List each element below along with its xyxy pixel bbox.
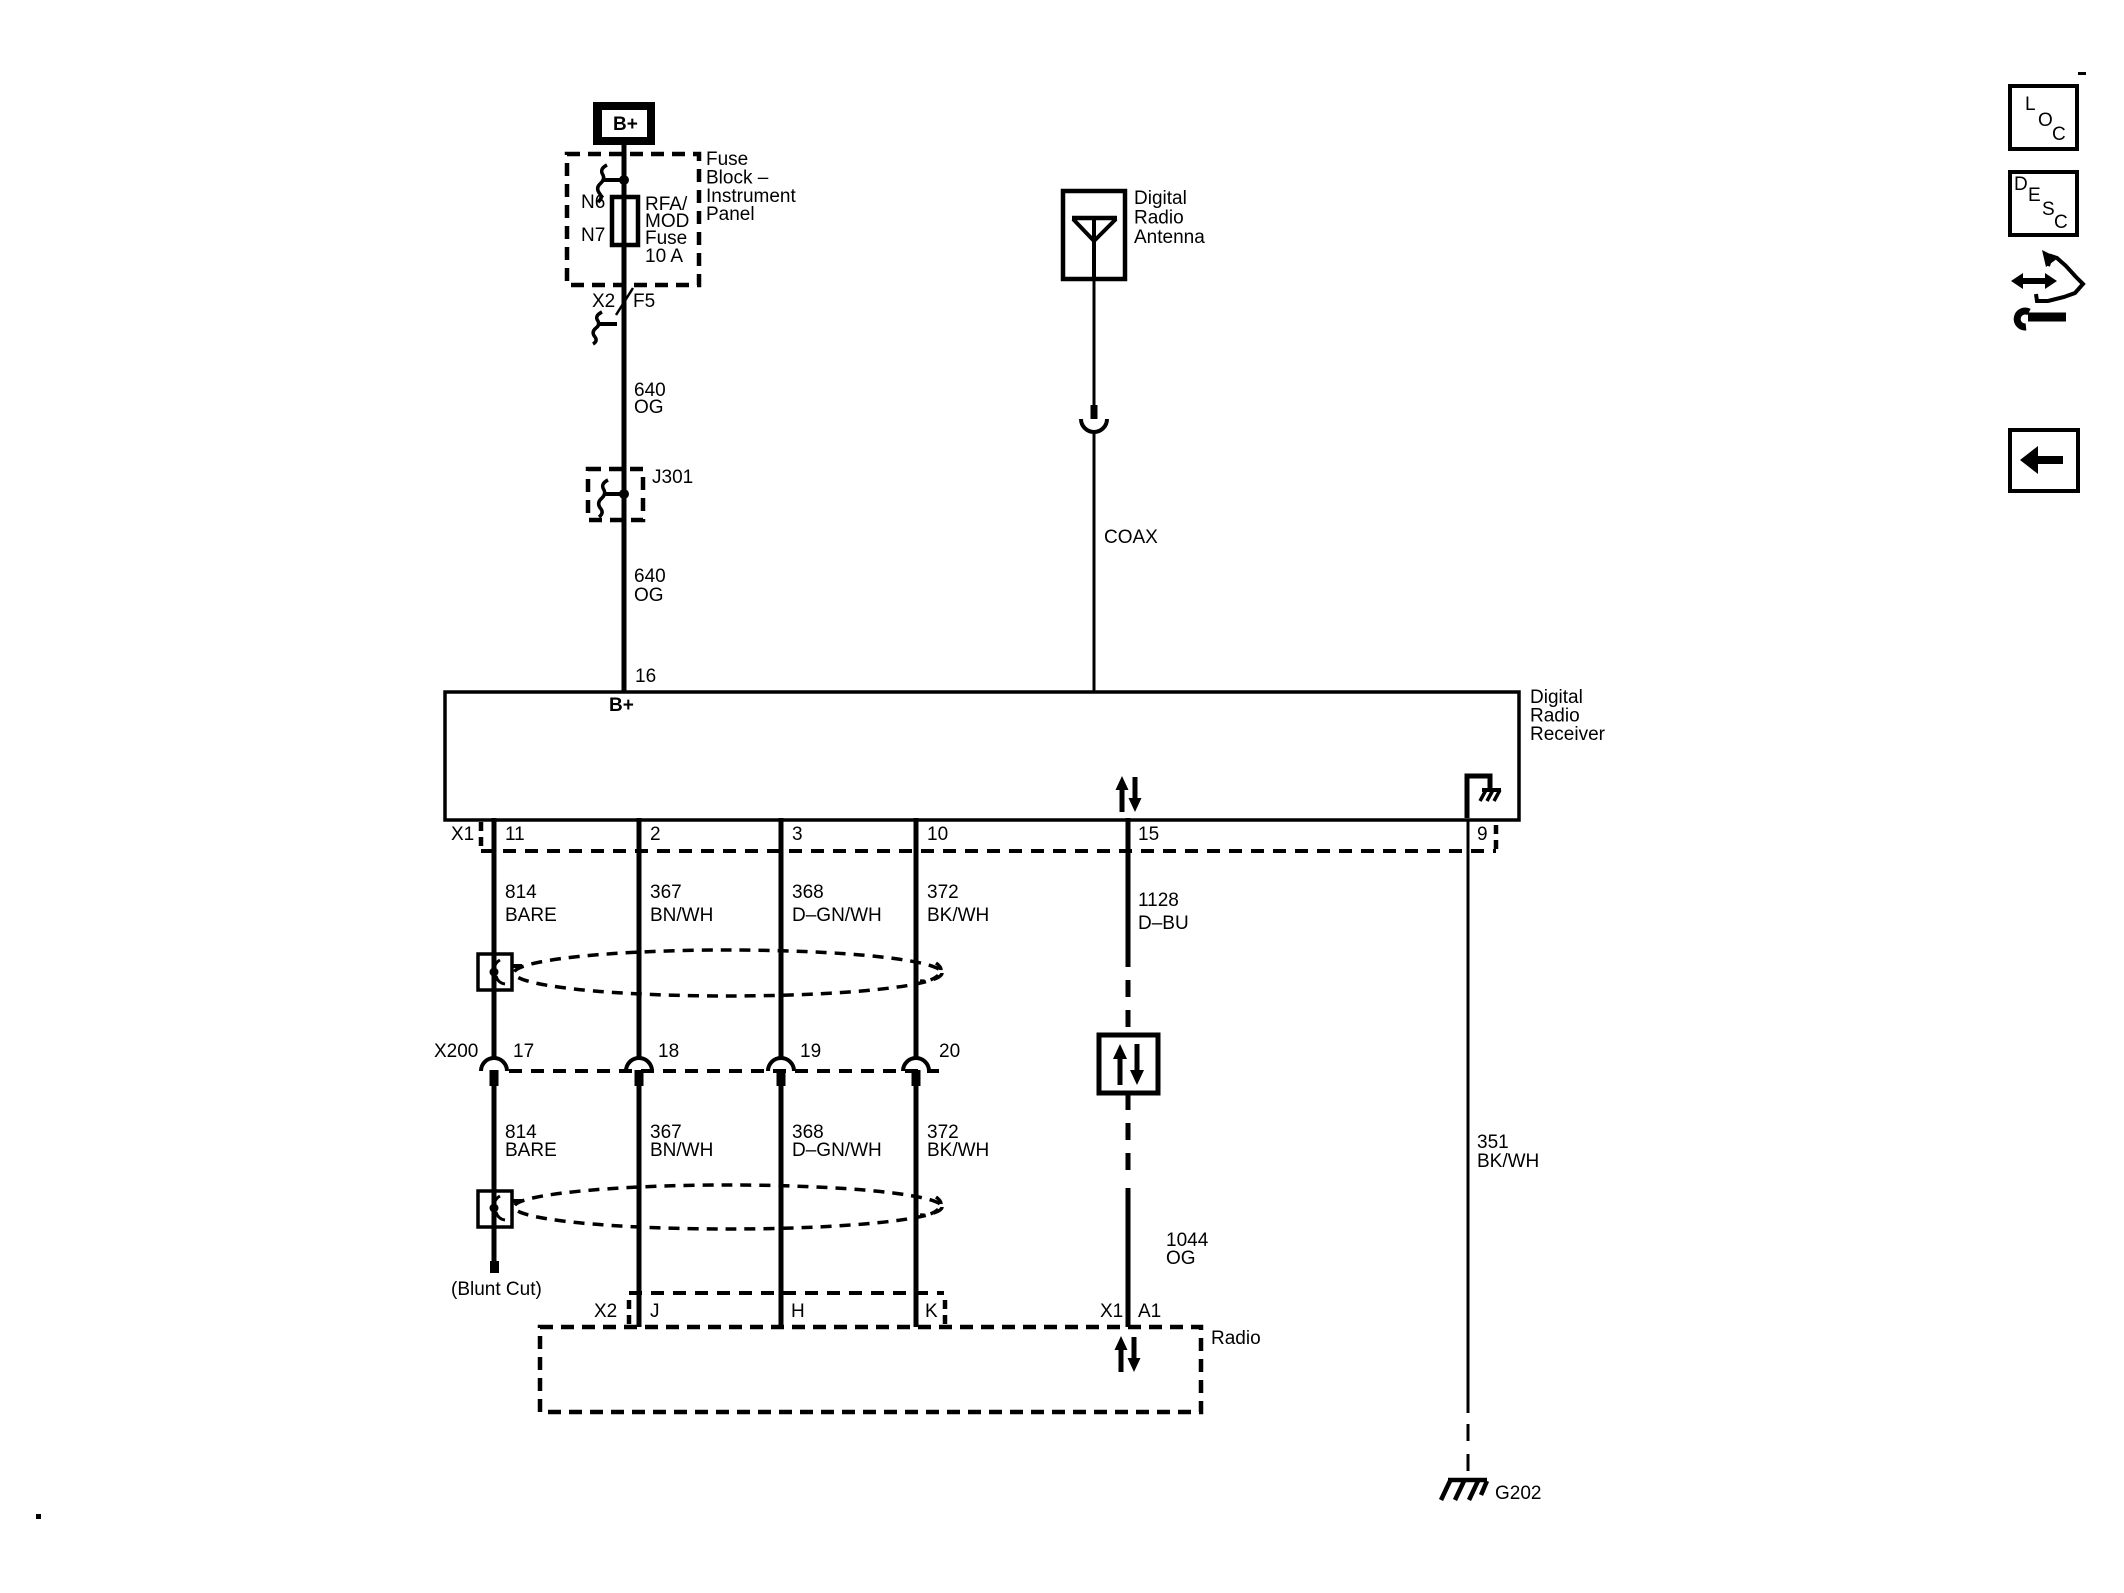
wire: 367 BN/WH (pin 2 to X200) xyxy=(637,818,642,1058)
svg-text:N6: N6 xyxy=(581,192,605,213)
wire: 1128 D-BU solid part (pin 15) xyxy=(1126,818,1131,967)
svg-text:20: 20 xyxy=(939,1041,960,1062)
wire: 814 BARE below X200 xyxy=(492,1086,497,1273)
shield symbol lower: drain wire box xyxy=(478,1191,522,1227)
svg-text:H: H xyxy=(791,1301,805,1322)
symbol: internal chassis ground of receiver xyxy=(1467,776,1501,818)
wire: COAX to receiver xyxy=(1093,432,1096,692)
wire: 367 BN/WH below X200 xyxy=(637,1086,642,1327)
svg-text:L: L xyxy=(2025,94,2036,115)
wire: 351 BK/WH (pin 9) solid xyxy=(1467,820,1470,1413)
svg-text:351: 351 xyxy=(1477,1132,1509,1153)
svg-text:17: 17 xyxy=(513,1041,534,1062)
svg-text:BN/WH: BN/WH xyxy=(650,905,713,926)
svg-text:1128: 1128 xyxy=(1138,890,1179,911)
symbol: serial data arrows inside receiver xyxy=(1116,776,1142,812)
svg-text:E: E xyxy=(2028,185,2041,206)
svg-text:15: 15 xyxy=(1138,824,1159,845)
svg-text:BK/WH: BK/WH xyxy=(927,1140,989,1161)
svg-text:B+: B+ xyxy=(613,114,638,135)
connector X200 socket pin 18 xyxy=(626,1058,652,1071)
stray mark top right xyxy=(2078,72,2086,75)
svg-text:A1: A1 xyxy=(1138,1301,1161,1322)
component: Radio dashed box xyxy=(540,1327,1201,1412)
svg-text:X2: X2 xyxy=(592,291,615,312)
svg-text:COAX: COAX xyxy=(1104,527,1158,548)
svg-text:Panel: Panel xyxy=(706,204,755,225)
svg-text:BARE: BARE xyxy=(505,1140,557,1161)
svg-text:C: C xyxy=(2054,212,2068,233)
svg-text:X1: X1 xyxy=(1100,1301,1123,1322)
svg-text:BK/WH: BK/WH xyxy=(1477,1151,1539,1172)
component: serial data gateway box on 1128 circuit xyxy=(1099,1035,1158,1093)
svg-text:X2: X2 xyxy=(594,1301,617,1322)
svg-text:9: 9 xyxy=(1477,824,1488,845)
svg-text:OG: OG xyxy=(1166,1248,1196,1269)
svg-text:OG: OG xyxy=(634,585,664,606)
connector: antenna inline male pin xyxy=(1091,405,1098,419)
connector mark left of pin J xyxy=(627,1300,632,1324)
svg-text:J301: J301 xyxy=(652,467,693,488)
connector mark left of pin 11 xyxy=(479,822,484,848)
wire: stub to J301 terminal xyxy=(603,492,624,496)
svg-text:B+: B+ xyxy=(609,695,634,716)
shield symbol upper: drain wire box xyxy=(478,954,522,990)
svg-text:OG: OG xyxy=(634,397,664,418)
symbol: serial data arrows inside radio xyxy=(1115,1336,1141,1372)
nav icon DESC xyxy=(2010,172,2077,235)
svg-text:D–GN/WH: D–GN/WH xyxy=(792,1140,882,1161)
stray mark bottom left xyxy=(36,1514,41,1519)
connector X200 socket pin 19 xyxy=(768,1058,794,1071)
nav icon back arrow xyxy=(2010,430,2078,491)
svg-text:Digital: Digital xyxy=(1134,188,1187,209)
terminal hook F5 xyxy=(598,322,617,326)
wire: 368 D-GN/WH below X200 xyxy=(779,1086,784,1327)
svg-text:10: 10 xyxy=(927,824,948,845)
connector mark right of pin K xyxy=(943,1300,948,1324)
svg-text:D: D xyxy=(2014,174,2028,195)
wire: 1044 OG dashed below gateway xyxy=(1126,1093,1131,1176)
fuse RFA/MOD Fuse 10A xyxy=(612,197,638,245)
svg-text:D–GN/WH: D–GN/WH xyxy=(792,905,882,926)
svg-text:18: 18 xyxy=(658,1041,679,1062)
svg-text:2: 2 xyxy=(650,824,661,845)
svg-text:J: J xyxy=(650,1301,660,1322)
svg-text:16: 16 xyxy=(635,666,656,687)
ground G202 chassis symbol xyxy=(1441,1480,1487,1500)
connector mark right of pin 9 xyxy=(1494,825,1499,851)
svg-text:G202: G202 xyxy=(1495,1483,1541,1504)
terminal hook J301 xyxy=(599,480,608,517)
shield dashed ellipse upper xyxy=(514,950,942,996)
connector X200 socket pin 17 xyxy=(481,1058,507,1071)
svg-text:N7: N7 xyxy=(581,225,605,246)
svg-text:10 A: 10 A xyxy=(645,246,683,267)
wire: stub to terminal N6 xyxy=(602,178,624,182)
wire: 368 D-GN/WH (pin 3 to X200) xyxy=(779,818,784,1058)
svg-text:BN/WH: BN/WH xyxy=(650,1140,713,1161)
svg-text:S: S xyxy=(2042,199,2055,220)
svg-text:814: 814 xyxy=(505,882,537,903)
terminal hook N6 xyxy=(598,165,607,202)
splice J301 dashed box xyxy=(588,469,643,520)
wire: 372 BK/WH (pin 10 to X200) xyxy=(914,818,919,1058)
svg-text:K: K xyxy=(925,1301,938,1322)
node: junction dot at fuse feed xyxy=(619,175,629,185)
svg-text:X200: X200 xyxy=(434,1041,478,1062)
power symbol B+ box xyxy=(593,102,655,145)
connector X2/F5 slash xyxy=(616,288,633,315)
connector X1 dashed pin line xyxy=(481,849,1496,853)
wire: 1128 D-BU dashed part xyxy=(1126,980,1131,1035)
wire: 372 BK/WH below X200 xyxy=(914,1086,919,1327)
wire: drain 814 BARE (pin 11 to X200) xyxy=(492,818,497,1057)
fuse block dashed box: Fuse Block - Instrument Panel xyxy=(567,154,699,285)
shield dashed ellipse lower xyxy=(514,1185,942,1229)
svg-text:372: 372 xyxy=(927,882,959,903)
nav icon wrench/arrows xyxy=(2011,250,2083,327)
connector X2 dashed pin line (radio) xyxy=(629,1291,944,1295)
nav icon LOC xyxy=(2010,86,2077,149)
svg-text:367: 367 xyxy=(650,882,682,903)
wire: antenna lead (coax) upper xyxy=(1093,279,1096,406)
component: Digital Radio Receiver box xyxy=(445,692,1519,820)
svg-text:(Blunt Cut): (Blunt Cut) xyxy=(451,1279,542,1300)
svg-text:19: 19 xyxy=(800,1041,821,1062)
svg-text:O: O xyxy=(2038,110,2053,131)
svg-text:Antenna: Antenna xyxy=(1134,227,1205,248)
svg-text:368: 368 xyxy=(792,882,824,903)
svg-text:3: 3 xyxy=(792,824,803,845)
svg-text:D–BU: D–BU xyxy=(1138,913,1189,934)
connector: antenna inline female socket xyxy=(1081,419,1107,432)
svg-text:BARE: BARE xyxy=(505,905,557,926)
svg-text:C: C xyxy=(2052,124,2066,145)
wire: 1044 OG solid to radio xyxy=(1126,1188,1131,1327)
svg-text:11: 11 xyxy=(505,824,525,845)
svg-text:Radio: Radio xyxy=(1134,208,1184,229)
connector X200 socket pin 20 xyxy=(903,1058,929,1071)
svg-text:Radio: Radio xyxy=(1211,1328,1261,1349)
svg-text:X1: X1 xyxy=(451,824,474,845)
connector X200 dashed line xyxy=(509,1069,939,1073)
svg-text:BK/WH: BK/WH xyxy=(927,905,989,926)
svg-text:Receiver: Receiver xyxy=(1530,724,1606,745)
svg-text:640: 640 xyxy=(634,566,666,587)
component: Digital Radio Antenna box xyxy=(1063,191,1125,279)
svg-text:F5: F5 xyxy=(633,291,655,312)
wire: B+ feed down to receiver pin 16 (640 OG) xyxy=(622,145,627,692)
node: J301 junction dot xyxy=(619,489,629,499)
wire: 351 BK/WH dashed to G202 xyxy=(1467,1424,1470,1481)
